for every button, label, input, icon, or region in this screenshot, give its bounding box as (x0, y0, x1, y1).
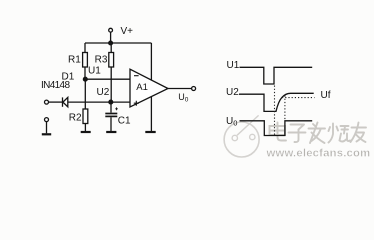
烧 (329, 124, 351, 143)
svg-text:R1: R1 (68, 55, 81, 66)
watermark logo circle (224, 115, 259, 157)
wire top rail (85, 42, 151, 44)
trace U1 (240, 67, 313, 84)
wire U1 node down to R2 (84, 79, 86, 109)
友 (351, 123, 367, 143)
wire op-amp gnd pin (150, 97, 152, 131)
svg-text:A1: A1 (136, 82, 148, 93)
ground R2 (81, 131, 91, 133)
wire op-amp V+ pin (150, 43, 152, 80)
wire output (168, 88, 192, 90)
子 (289, 125, 306, 143)
svg-text:U2: U2 (226, 87, 239, 98)
wire V+ stub (110, 32, 112, 43)
resistor R1 (83, 43, 88, 79)
node rail junction (109, 41, 113, 45)
svg-text:U2: U2 (97, 87, 110, 98)
terminal V+ (109, 28, 113, 32)
node U1 (83, 77, 87, 81)
resistor R3 (109, 43, 114, 102)
svg-text:C1: C1 (118, 116, 131, 127)
resistor R2 (83, 109, 88, 131)
电 (270, 123, 287, 141)
svg-text:V+: V+ (121, 26, 134, 37)
wire U1 to inverting input (85, 78, 130, 80)
svg-text:U1: U1 (88, 66, 101, 77)
svg-text:R3: R3 (95, 55, 108, 66)
dotted timing line t1 (274, 86, 276, 136)
terminal input (45, 100, 49, 104)
ground input terminal (42, 133, 51, 135)
svg-text:U0: U0 (178, 92, 189, 103)
发 (309, 123, 326, 144)
diode D1 (63, 97, 68, 106)
dotted timing line t2 (284, 96, 286, 121)
wire input to diode (49, 101, 63, 103)
wire terminal to ground (46, 122, 48, 134)
ground C1 (106, 131, 116, 133)
op-amp A1 (130, 69, 168, 107)
terminal signal ground (45, 118, 49, 122)
terminal output (192, 87, 196, 91)
trace U2 (239, 93, 314, 111)
svg-text:www.elecfans.com: www.elecfans.com (266, 147, 371, 159)
svg-text:IN4148: IN4148 (41, 80, 70, 91)
watermark text 电子发烧友 (approximated strokes) (270, 123, 367, 144)
wire diode to U2 node (68, 101, 111, 103)
svg-text:Uf: Uf (321, 90, 331, 101)
capacitor C1 (105, 102, 118, 131)
svg-text:U0: U0 (226, 116, 237, 128)
dotted level Uf (282, 97, 315, 99)
node U2 (109, 100, 113, 104)
ground op-amp (145, 131, 155, 133)
wire U2 to non-inverting input (111, 101, 130, 103)
svg-text:R2: R2 (69, 113, 82, 124)
trace U0 (240, 121, 313, 136)
svg-text:U1: U1 (227, 60, 240, 71)
